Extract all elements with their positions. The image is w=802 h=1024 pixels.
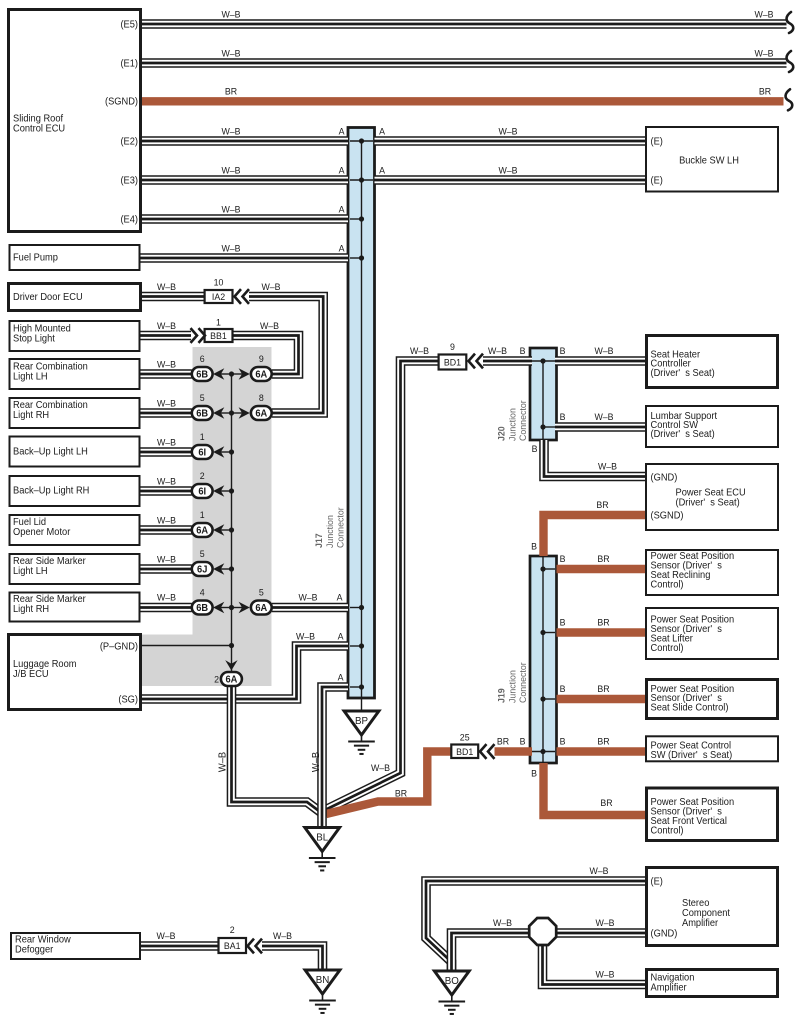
svg-text:6A: 6A: [255, 369, 267, 380]
harness arrow pointing down: [225, 660, 237, 670]
svg-text:10: 10: [214, 277, 224, 287]
svg-text:Control): Control): [651, 825, 684, 836]
svg-text:W–B: W–B: [296, 631, 315, 641]
box Back-Up Light LH: [10, 437, 140, 467]
svg-text:Buckle SW LH: Buckle SW LH: [679, 155, 739, 166]
svg-text:6B: 6B: [196, 603, 208, 614]
wire J20 to Seat Heater Controller B/W-B: [555, 356, 646, 366]
svg-text:1: 1: [200, 510, 205, 520]
bus line in gray region: [231, 374, 233, 672]
box Lumbar Support Control SW: [646, 406, 778, 447]
svg-text:6A: 6A: [196, 525, 208, 536]
wire High Mounted Stop Light to BB1 W-B: [141, 331, 192, 341]
ground BL: [305, 828, 340, 852]
connector 6I (2) Back-Up RH: [192, 484, 213, 498]
svg-text:BB1: BB1: [210, 331, 227, 341]
wire J19 to Power Seat Position Sensor (Reclining) BR: [557, 565, 647, 573]
svg-text:Connector: Connector: [518, 662, 528, 703]
svg-text:BR: BR: [597, 684, 610, 694]
svg-text:Back–Up Light RH: Back–Up Light RH: [13, 485, 89, 496]
svg-text:5: 5: [200, 549, 205, 559]
svg-text:Light RH: Light RH: [13, 410, 49, 421]
svg-text:A: A: [379, 165, 386, 175]
svg-text:Driver Door ECU: Driver Door ECU: [13, 292, 83, 303]
wire Driver Door ECU to IA2 W-B: [141, 292, 205, 302]
svg-text:6J: 6J: [197, 564, 207, 575]
box Sliding Roof Control ECU: [9, 10, 141, 232]
svg-text:W–B: W–B: [754, 9, 773, 19]
svg-text:BD1: BD1: [456, 747, 473, 757]
svg-text:2: 2: [200, 471, 205, 481]
wire Fuel Pump W-B: [141, 253, 349, 263]
svg-text:1: 1: [216, 317, 221, 327]
wire (E1) W-B: [141, 58, 787, 68]
svg-text:(P–GND): (P–GND): [100, 641, 138, 652]
svg-text:BR: BR: [597, 554, 610, 564]
svg-text:W–B: W–B: [311, 752, 322, 772]
wire Power Seat ECU (SGND) to J19 BR: [544, 515, 647, 556]
svg-text:J/B ECU: J/B ECU: [13, 669, 49, 680]
svg-text:2: 2: [230, 925, 235, 935]
wire Stereo Component Amplifier (E) to ground BO W-B: [426, 881, 646, 971]
svg-text:B: B: [560, 736, 566, 746]
svg-text:BR: BR: [497, 736, 510, 746]
svg-text:W–B: W–B: [594, 412, 613, 422]
wire J19 to Power Seat Position Sensor (Slide) BR: [557, 695, 647, 703]
svg-text:W–B: W–B: [221, 48, 240, 58]
svg-text:W–B: W–B: [221, 9, 240, 19]
box Power Seat Control SW: [646, 736, 778, 761]
svg-text:(GND): (GND): [651, 472, 678, 483]
svg-text:(E2): (E2): [120, 136, 138, 147]
svg-text:B: B: [531, 768, 537, 778]
connector 6B (6) Rear Combination LH: [192, 367, 213, 381]
svg-text:6A: 6A: [255, 408, 267, 419]
svg-text:(E): (E): [651, 175, 663, 186]
junction connector J19 box: [530, 556, 557, 763]
svg-text:J19: J19: [496, 688, 506, 703]
svg-text:W–B: W–B: [157, 554, 176, 564]
svg-text:BN: BN: [316, 975, 330, 986]
svg-text:W–B: W–B: [157, 476, 176, 486]
box Seat Heater Controller: [647, 336, 778, 388]
svg-text:BR: BR: [596, 500, 609, 510]
svg-text:A: A: [338, 672, 345, 682]
svg-text:W–B: W–B: [221, 204, 240, 214]
box Power Seat Position Sensor (Seat Slide Control): [647, 680, 778, 719]
svg-text:W–B: W–B: [595, 918, 614, 928]
svg-text:(Driver' s Seat): (Driver' s Seat): [651, 429, 715, 440]
svg-text:W–B: W–B: [156, 931, 175, 941]
wire (E2) W-B left segment: [141, 136, 349, 146]
junction dots in J20: [540, 358, 545, 363]
svg-text:6A: 6A: [225, 674, 237, 685]
box Fuel Pump: [10, 245, 140, 270]
svg-text:Control ECU: Control ECU: [13, 123, 65, 134]
svg-text:BR: BR: [759, 86, 772, 96]
connector 6A (2) Luggage Room: [221, 672, 242, 686]
svg-text:6B: 6B: [196, 408, 208, 419]
svg-text:Stop Light: Stop Light: [13, 333, 55, 344]
svg-text:W–B: W–B: [221, 165, 240, 175]
svg-text:W–B: W–B: [157, 321, 176, 331]
box Power Seat Position Sensor (Seat Reclining Control): [646, 550, 778, 595]
svg-text:W–B: W–B: [598, 461, 617, 471]
svg-text:A: A: [339, 126, 346, 136]
junction dots on gray-region bus: [229, 371, 234, 376]
svg-text:W–B: W–B: [595, 969, 614, 979]
wire (E5) W-B: [141, 19, 787, 29]
connector BD1 (9): [439, 355, 467, 370]
svg-text:W–B: W–B: [594, 346, 613, 356]
label J17 Junction Connector: [314, 507, 346, 548]
box Rear Window Defogger: [11, 933, 140, 959]
svg-text:A: A: [379, 126, 386, 136]
octagon splice: [529, 918, 556, 945]
wire Rear Side Marker Light LH W-B: [141, 564, 192, 574]
svg-text:(Driver' s Seat): (Driver' s Seat): [676, 497, 740, 508]
svg-text:B: B: [532, 444, 538, 454]
svg-text:W–B: W–B: [273, 931, 292, 941]
svg-text:4: 4: [200, 587, 205, 597]
svg-text:(E4): (E4): [120, 214, 138, 225]
svg-text:W–B: W–B: [157, 282, 176, 292]
svg-text:Amplifier: Amplifier: [682, 918, 719, 929]
svg-text:W–B: W–B: [157, 515, 176, 525]
svg-text:B: B: [560, 684, 566, 694]
box Buckle SW LH: [646, 127, 778, 192]
box Back-Up Light RH: [10, 476, 140, 506]
ground BN: [305, 970, 340, 994]
connector 6A (8): [251, 406, 272, 420]
svg-text:W–B: W–B: [221, 126, 240, 136]
svg-text:9: 9: [259, 354, 264, 364]
wire (SGND) BR: [141, 97, 784, 105]
wire Rear Combination Light LH W-B: [141, 369, 192, 379]
junction connector J17 box: [348, 128, 375, 712]
box Fuel Lid Opener Motor: [10, 515, 140, 545]
box Power Seat Position Sensor (Seat Lifter Control): [646, 608, 778, 659]
svg-text:Light LH: Light LH: [13, 566, 48, 577]
svg-text:J17: J17: [314, 533, 324, 548]
wire J19 to Power Seat Position Sensor (Lifter) BR: [557, 628, 647, 636]
box Luggage Room J/B ECU: [9, 635, 141, 710]
svg-text:W–B: W–B: [260, 321, 279, 331]
wire octagon splice to ground BO W-B: [452, 933, 530, 971]
connector BD1 (25): [451, 745, 478, 759]
wire (E3) W-B left segment: [141, 175, 349, 185]
svg-text:6B: 6B: [196, 369, 208, 380]
svg-text:W–B: W–B: [498, 165, 517, 175]
svg-text:(E5): (E5): [120, 19, 138, 30]
svg-text:W–B: W–B: [261, 282, 280, 292]
thin line (P-GND) to bus: [141, 645, 232, 647]
wire BA1 to ground BN W-B: [262, 946, 323, 970]
svg-text:A: A: [339, 243, 346, 253]
svg-text:IA2: IA2: [212, 292, 225, 302]
connector BB1: [205, 329, 233, 342]
svg-text:(E3): (E3): [120, 175, 138, 186]
svg-text:W–B: W–B: [371, 763, 390, 773]
svg-text:(E): (E): [651, 876, 663, 887]
box Rear Combination Light LH: [10, 359, 140, 389]
wire IA2 to connector 6A(8) W-B: [249, 297, 323, 414]
svg-text:Control): Control): [651, 579, 684, 590]
wire Rear Window Defogger to BA1 W-B: [140, 941, 219, 951]
wire octagon splice to Stereo (GND) W-B: [557, 928, 647, 938]
box High Mounted Stop Light: [10, 321, 140, 351]
wire octagon splice to Navigation Amplifier W-B: [543, 945, 647, 985]
svg-text:Defogger: Defogger: [15, 944, 54, 955]
box Rear Side Marker Light RH: [10, 593, 140, 622]
chevron arrows at BA1: [248, 939, 263, 954]
svg-text:(E): (E): [651, 136, 663, 147]
svg-text:W–B: W–B: [157, 398, 176, 408]
wire Back-Up Light LH W-B: [141, 447, 192, 457]
svg-text:Junction: Junction: [507, 670, 517, 703]
gray harness region extension near Luggage Room: [141, 635, 193, 687]
svg-text:(GND): (GND): [651, 928, 678, 939]
junction connector J20 box: [530, 348, 557, 440]
svg-text:Opener Motor: Opener Motor: [13, 527, 71, 538]
wire BD1(25) down to ground BL BR: [326, 752, 451, 815]
connector 6A (9): [251, 367, 272, 381]
wire J17 pin A to ground BL W-B: [322, 687, 348, 828]
svg-text:B: B: [560, 346, 566, 356]
svg-text:(SGND): (SGND): [651, 510, 684, 521]
connector 6A (1) Fuel Lid: [192, 523, 213, 537]
svg-text:Light RH: Light RH: [13, 604, 49, 615]
harness arrows pointing left: [213, 368, 224, 379]
connector 6I (1) Back-Up LH: [192, 445, 213, 459]
svg-text:BR: BR: [395, 788, 408, 798]
arrow tails: [221, 373, 232, 375]
svg-text:Seat Slide Control): Seat Slide Control): [651, 702, 729, 713]
svg-text:BO: BO: [445, 976, 459, 987]
svg-text:BA1: BA1: [224, 941, 241, 951]
connector 6J (5) Rear Side Marker LH: [192, 562, 213, 576]
connector 6B (5) Rear Combination RH: [192, 406, 213, 420]
svg-text:25: 25: [460, 732, 470, 742]
svg-text:W–B: W–B: [493, 918, 512, 928]
wire (E3) W-B right segment to Buckle SW: [375, 175, 647, 185]
chevron arrows at BD1 (9): [469, 354, 484, 369]
wire BD1(9) to J20 W-B: [483, 356, 532, 366]
svg-text:W–B: W–B: [221, 243, 240, 253]
svg-text:BR: BR: [225, 86, 238, 96]
wire (E4) W-B: [141, 214, 349, 224]
box Power Seat Position Sensor (Seat Front Vertical Control): [647, 788, 778, 841]
svg-text:5: 5: [259, 587, 264, 597]
svg-text:W–B: W–B: [157, 592, 176, 602]
wire connector 6A(5) to J17 W-B: [272, 603, 348, 613]
svg-text:9: 9: [450, 342, 455, 352]
chevron arrows at IA2: [235, 289, 250, 304]
svg-text:B: B: [531, 541, 537, 551]
svg-text:(SG): (SG): [118, 694, 138, 705]
box Navigation Amplifier: [647, 970, 778, 997]
wire Rear Side Marker Light RH W-B: [141, 603, 192, 613]
svg-text:Fuel Pump: Fuel Pump: [13, 252, 58, 263]
svg-text:BR: BR: [600, 798, 613, 808]
svg-text:5: 5: [200, 393, 205, 403]
box Rear Side Marker Light LH: [10, 554, 140, 584]
svg-text:W–B: W–B: [217, 752, 228, 772]
gray harness region: [193, 347, 272, 686]
svg-text:B: B: [520, 736, 526, 746]
svg-text:Junction: Junction: [507, 408, 517, 441]
svg-text:(SGND): (SGND): [105, 96, 138, 107]
svg-text:W–B: W–B: [298, 592, 317, 602]
box Driver Door ECU: [9, 284, 141, 311]
svg-text:Connector: Connector: [518, 400, 528, 441]
svg-text:6: 6: [200, 354, 205, 364]
wire Rear Combination Light RH W-B: [141, 408, 192, 418]
chevron arrows at BB1: [191, 328, 206, 343]
svg-text:Control): Control): [651, 643, 684, 654]
wire (E2) W-B right segment to Buckle SW: [375, 136, 647, 146]
svg-text:Back–Up Light LH: Back–Up Light LH: [13, 446, 88, 457]
wire J20 to Lumbar Support Control SW B/W-B: [555, 422, 646, 432]
connector BA1: [219, 938, 247, 953]
svg-text:BP: BP: [355, 716, 368, 727]
wire BD1(9) down to ground BL W-B: [324, 361, 439, 811]
continuation marks at right edge: [787, 12, 794, 33]
svg-text:A: A: [337, 592, 344, 602]
box Rear Combination Light RH: [10, 398, 140, 428]
wire J19 to Power Seat Control SW BR: [557, 747, 647, 755]
svg-text:8: 8: [259, 393, 264, 403]
svg-text:W–B: W–B: [157, 359, 176, 369]
label J19 Junction Connector: [496, 662, 528, 703]
svg-text:W–B: W–B: [157, 437, 176, 447]
svg-text:6I: 6I: [198, 447, 206, 458]
svg-text:BD1: BD1: [444, 357, 461, 367]
wire Back-Up Light RH W-B: [141, 486, 192, 496]
ground BO: [434, 971, 469, 995]
svg-text:W–B: W–B: [488, 346, 507, 356]
connector IA2: [205, 290, 233, 303]
wire Fuel Lid Opener Motor W-B: [141, 525, 192, 535]
svg-text:Light LH: Light LH: [13, 371, 48, 382]
label J20 Junction Connector: [496, 400, 528, 441]
svg-text:1: 1: [200, 432, 205, 442]
svg-text:BL: BL: [316, 832, 328, 843]
junction dots in J17: [359, 138, 364, 143]
wire J20 to Power Seat ECU (GND) B/W-B: [544, 440, 647, 477]
svg-text:J20: J20: [496, 426, 506, 441]
connector 6B (4) Rear Side Marker RH: [192, 601, 213, 615]
svg-text:Junction: Junction: [325, 515, 335, 548]
svg-text:Connector: Connector: [335, 507, 345, 548]
svg-text:BR: BR: [597, 736, 610, 746]
svg-text:B: B: [520, 346, 526, 356]
svg-text:2: 2: [214, 674, 219, 684]
svg-text:W–B: W–B: [498, 126, 517, 136]
svg-text:B: B: [560, 617, 566, 627]
box Power Seat ECU: [646, 464, 778, 530]
wire (SG) to J17 W-B: [141, 646, 349, 699]
box Stereo Component Amplifier: [647, 868, 778, 946]
wire BB1 to connector 6A(9) W-B: [233, 336, 299, 375]
svg-text:A: A: [339, 165, 346, 175]
svg-text:BR: BR: [597, 617, 610, 627]
svg-text:Amplifier: Amplifier: [651, 982, 688, 993]
svg-text:(Driver' s Seat): (Driver' s Seat): [651, 368, 715, 379]
svg-text:B: B: [560, 412, 566, 422]
svg-text:SW (Driver' s Seat): SW (Driver' s Seat): [651, 750, 733, 761]
svg-text:W–B: W–B: [754, 48, 773, 58]
svg-text:6I: 6I: [198, 486, 206, 497]
wire J19 left to BD1(25) BR: [495, 747, 533, 755]
junction dots in J19: [540, 566, 545, 571]
svg-text:(E1): (E1): [120, 58, 138, 69]
ground BP: [344, 711, 379, 735]
connector 6A (5): [251, 601, 272, 615]
svg-text:A: A: [339, 204, 346, 214]
wire J19 bottom to Power Seat Position Sensor (Front Vertical) BR: [544, 763, 647, 815]
chevron arrows at BD1 (25): [480, 744, 495, 759]
wire connector 6A(2) down to ground BL W-B: [232, 686, 322, 813]
svg-text:A: A: [338, 631, 345, 641]
svg-text:W–B: W–B: [410, 346, 429, 356]
svg-text:6A: 6A: [255, 603, 267, 614]
harness arrows pointing right: [239, 368, 250, 379]
svg-text:W–B: W–B: [589, 866, 608, 876]
svg-text:B: B: [560, 554, 566, 564]
